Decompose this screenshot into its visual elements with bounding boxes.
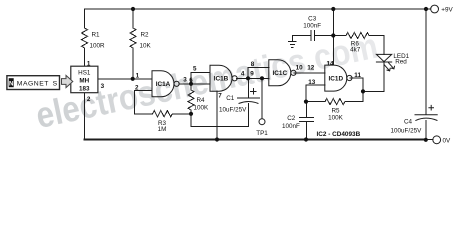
svg-text:R1: R1	[92, 32, 101, 39]
svg-text:C4: C4	[404, 119, 413, 126]
wire IC1D pin13 node	[306, 85, 325, 101]
svg-text:IC1C: IC1C	[273, 70, 288, 77]
watermark electroschematics.com	[32, 25, 381, 136]
NAND gate IC1A	[152, 71, 174, 97]
svg-text:100K: 100K	[328, 114, 344, 121]
svg-text:7: 7	[218, 92, 222, 99]
resistor R5	[306, 99, 363, 105]
plus sign C4	[428, 105, 434, 111]
ground	[289, 41, 296, 47]
svg-text:100uF/25V: 100uF/25V	[391, 128, 423, 135]
junction C3/R6/pin14 node	[331, 33, 335, 37]
svg-text:14: 14	[327, 60, 335, 67]
svg-text:2: 2	[135, 85, 139, 92]
arrow magnet to sensor	[62, 75, 73, 87]
wire HS1 pin2 to bottom rail	[84, 93, 86, 140]
junction pin14/+9V rail	[331, 7, 335, 11]
svg-text:0V: 0V	[443, 137, 452, 144]
junction C2/R5 node	[304, 100, 308, 104]
svg-text:R2: R2	[141, 32, 150, 39]
svg-text:N: N	[9, 81, 14, 88]
svg-text:MAGNET: MAGNET	[17, 80, 49, 87]
wire C3 left to ground	[292, 36, 311, 42]
svg-text:100R: 100R	[90, 43, 106, 50]
test point TP1	[259, 119, 265, 125]
svg-text:IC2 - CD4093B: IC2 - CD4093B	[317, 131, 361, 138]
svg-text:3: 3	[101, 83, 105, 90]
capacitor C2	[300, 102, 314, 140]
sensor HS1 box	[71, 66, 98, 93]
svg-text:100nF: 100nF	[282, 123, 300, 130]
terminal +9V	[426, 8, 431, 10]
LED arrows	[384, 63, 394, 71]
capacitor C1	[238, 78, 260, 126]
svg-text:183: 183	[79, 86, 90, 93]
junction C1/pin8 node	[246, 76, 250, 80]
svg-text:2: 2	[87, 96, 91, 103]
wire IC1B pin7 to bottom rail	[216, 91, 218, 139]
wire R2 branch vertical	[132, 9, 134, 79]
terminal 0V	[426, 139, 433, 141]
svg-text:C2: C2	[287, 115, 296, 122]
svg-text:10uF/25V: 10uF/25V	[219, 107, 247, 114]
svg-text:MH: MH	[79, 78, 89, 85]
svg-text:5: 5	[193, 66, 197, 73]
svg-text:1M: 1M	[158, 126, 167, 133]
wire LED branch	[363, 62, 384, 91]
junction R3/R4 node	[189, 112, 193, 116]
svg-text:100nF: 100nF	[303, 23, 321, 30]
svg-text:+9V: +9V	[441, 7, 453, 14]
resistor R3	[135, 111, 191, 117]
svg-text:IC1A: IC1A	[156, 81, 171, 88]
svg-text:9: 9	[250, 71, 254, 78]
junction C4/+9V rail	[424, 7, 428, 11]
wire IC1A output row to IC1B pin6	[179, 83, 210, 85]
svg-text:10: 10	[296, 64, 304, 71]
NAND gate IC1D	[325, 65, 347, 91]
resistor R6	[333, 33, 384, 55]
svg-text:3: 3	[183, 77, 187, 84]
svg-text:4k7: 4k7	[350, 46, 361, 53]
junction C4/0V rail	[424, 138, 428, 142]
svg-text:1: 1	[87, 61, 91, 68]
svg-text:R4: R4	[197, 97, 206, 104]
junction TP1 tap	[260, 76, 264, 80]
wire top rail	[85, 8, 427, 10]
wire R1 branch vertical	[84, 9, 86, 66]
svg-text:TP1: TP1	[256, 130, 268, 137]
capacitor C4	[415, 115, 437, 121]
svg-text:HS1: HS1	[78, 69, 91, 76]
junction C2/0V rail	[304, 137, 308, 141]
svg-text:C3: C3	[308, 16, 317, 23]
svg-text:12: 12	[307, 64, 315, 71]
LED1	[376, 54, 391, 62]
svg-text:11: 11	[354, 72, 361, 79]
wire jog to IC1B pin5	[191, 73, 210, 84]
svg-text:C1: C1	[226, 95, 235, 102]
svg-text:8: 8	[251, 61, 255, 68]
wire pin14 vertical	[332, 9, 334, 65]
junction pin3/R4 node	[189, 82, 193, 86]
wire jog to IC1C pin8	[248, 68, 269, 79]
svg-text:S: S	[53, 80, 58, 87]
wire right rail / C4	[425, 9, 427, 140]
svg-text:1: 1	[136, 73, 140, 80]
wire TP1	[261, 78, 263, 118]
resistor R1	[82, 28, 88, 48]
capacitor C3	[311, 31, 333, 41]
svg-text:IC1D: IC1D	[329, 75, 344, 82]
svg-text:4: 4	[241, 71, 245, 78]
wire pin11 down to R5	[350, 78, 363, 102]
wire IC1B out to IC1C pin9	[237, 77, 269, 79]
wire HS1 pin3 to IC1A pin1	[98, 78, 152, 80]
wire bottom rail	[85, 139, 427, 141]
NAND gate IC1B	[210, 65, 232, 91]
svg-text:IC1B: IC1B	[214, 76, 229, 83]
junction R2/pin1	[131, 77, 135, 81]
junction pin7/0V rail	[215, 137, 219, 141]
junction R2/+9V rail	[131, 7, 135, 11]
NAND gate IC1C	[269, 60, 291, 86]
svg-text:13: 13	[308, 79, 316, 86]
magnet box	[7, 76, 60, 90]
resistor R4	[188, 84, 194, 114]
resistor R2	[130, 28, 136, 48]
svg-text:6: 6	[189, 77, 193, 84]
svg-text:100K: 100K	[194, 105, 210, 112]
wire IC1A pin2 from R3 corner	[135, 90, 152, 113]
junction pin11/R5/LED node	[361, 89, 365, 93]
svg-text:10K: 10K	[140, 43, 152, 50]
wire IC1C out to IC1D pin12	[294, 72, 325, 74]
wire R3R4 node to C1 bottom	[191, 114, 248, 127]
svg-text:Red: Red	[395, 59, 407, 66]
